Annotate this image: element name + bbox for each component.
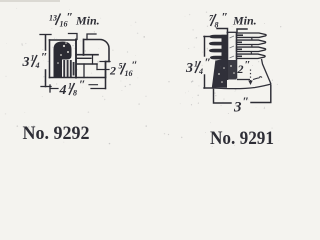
svg-text:″: ″ <box>41 50 48 64</box>
svg-text:13: 13 <box>49 14 57 23</box>
svg-text:″: ″ <box>205 55 212 69</box>
svg-text:3: 3 <box>22 55 30 70</box>
svg-text:Min.: Min. <box>75 14 100 28</box>
svg-text:3: 3 <box>185 61 193 76</box>
svg-text:No. 9292: No. 9292 <box>23 123 90 144</box>
svg-text:4: 4 <box>59 83 67 98</box>
svg-text:2: 2 <box>237 62 244 76</box>
svg-text:″: ″ <box>243 94 250 108</box>
svg-text:″: ″ <box>222 10 229 24</box>
svg-text:″: ″ <box>245 59 251 71</box>
svg-text:4: 4 <box>198 67 203 76</box>
svg-text:8: 8 <box>73 89 77 98</box>
svg-text:″: ″ <box>67 10 74 24</box>
svg-text:4: 4 <box>35 61 40 70</box>
svg-text:3: 3 <box>233 100 242 116</box>
svg-text:Min.: Min. <box>232 14 257 28</box>
svg-text:″: ″ <box>132 60 138 72</box>
svg-text:2: 2 <box>109 64 116 78</box>
svg-text:5: 5 <box>119 62 123 71</box>
svg-text:8: 8 <box>215 21 219 30</box>
svg-text:No. 9291: No. 9291 <box>210 128 274 149</box>
svg-text:″: ″ <box>79 77 86 91</box>
